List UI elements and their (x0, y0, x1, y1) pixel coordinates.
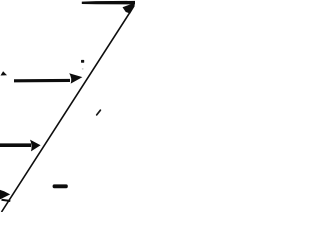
inclined arrow shaft (diagonal line) (2, 12, 130, 212)
horizontal arrow F1 head (69, 73, 82, 83)
square speck mark (81, 60, 84, 63)
horizontal arrow F3 head (clipped at left edge) (0, 190, 10, 200)
horizontal arrow F2 head (30, 140, 41, 152)
comma-like tick (97, 110, 101, 115)
horizontal arrow F1 shaft (14, 79, 70, 83)
short thick dash mark (53, 184, 68, 188)
arrowhead of inclined arrow (123, 3, 135, 14)
faint grey dot (82, 68, 84, 70)
arrow F3 lower barb stroke (2, 200, 11, 201)
horizontal arrow F2 shaft (0, 143, 31, 147)
top horizontal line (82, 1, 135, 5)
small triangular blemish near left edge (1, 71, 8, 75)
